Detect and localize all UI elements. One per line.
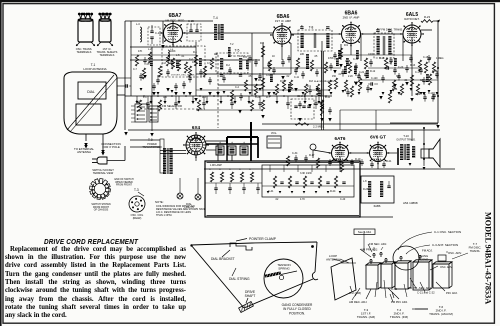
svg-text:T-10: T-10 [403, 134, 409, 138]
svg-text:C-120: C-120 [371, 77, 378, 80]
svg-text:S-1: S-1 [136, 100, 140, 103]
svg-text:C-7: C-7 [133, 68, 138, 71]
svg-text:(REAR): (REAR) [133, 217, 142, 220]
svg-text:R-13: R-13 [410, 64, 416, 67]
svg-text:C-12: C-12 [321, 80, 327, 83]
svg-text:R-11: R-11 [325, 96, 331, 99]
svg-text:AM REC. ADJ.: AM REC. ADJ. [349, 300, 368, 304]
svg-text:R-9: R-9 [307, 85, 312, 88]
svg-text:FOR 3' POLE: FOR 3' POLE [102, 145, 120, 149]
svg-text:1ST I.F. AMP: 1ST I.F. AMP [275, 19, 291, 23]
svg-text:T-8: T-8 [309, 26, 314, 30]
svg-text:C-1 OSC. SECTION: C-1 OSC. SECTION [434, 230, 461, 234]
svg-text:POINTER CLAMP: POINTER CLAMP [249, 237, 277, 241]
svg-text:C-17: C-17 [415, 71, 421, 74]
svg-text:TRANS. (AM): TRANS. (AM) [357, 315, 375, 319]
svg-text:AM OSC.-MOD.: AM OSC.-MOD. [165, 19, 185, 23]
svg-text:R-3: R-3 [202, 96, 207, 99]
svg-text:R-23: R-23 [424, 15, 431, 19]
svg-text:C-40: C-40 [340, 198, 346, 201]
svg-text:R-24: R-24 [330, 190, 336, 193]
svg-text:68K: 68K [420, 79, 425, 82]
svg-text:C-8: C-8 [162, 62, 167, 65]
svg-text:C-4: C-4 [235, 86, 240, 89]
svg-text:C-21: C-21 [359, 71, 365, 74]
svg-text:33K: 33K [396, 75, 401, 78]
svg-text:LOOP ANTENNA: LOOP ANTENNA [83, 67, 106, 71]
svg-text:470K: 470K [328, 57, 334, 60]
svg-text:100K: 100K [368, 53, 374, 56]
svg-text:ANTENNA: ANTENNA [77, 150, 91, 154]
svg-text:47K: 47K [138, 50, 143, 53]
svg-text:C-19: C-19 [415, 93, 421, 96]
svg-text:+: + [231, 141, 233, 145]
svg-text:AM-FM SELECTOR: AM-FM SELECTOR [157, 104, 182, 108]
svg-text:FM PRI. ADJ.: FM PRI. ADJ. [391, 300, 408, 304]
svg-text:AM PRI.-SEC. ADJ.: AM PRI.-SEC. ADJ. [408, 286, 432, 290]
svg-text:R-15: R-15 [379, 57, 385, 60]
svg-text:R-8: R-8 [309, 80, 314, 83]
svg-text:L-3: L-3 [136, 22, 140, 26]
svg-text:A54 13898: A54 13898 [403, 201, 418, 205]
svg-text:C-34: C-34 [292, 152, 298, 155]
svg-text:T-3: T-3 [134, 188, 139, 192]
svg-text:R-16: R-16 [392, 88, 398, 91]
svg-text:DIAL STRING: DIAL STRING [229, 277, 250, 281]
svg-text:MODEL 94BA1-43-7853A: MODEL 94BA1-43-7853A [484, 212, 493, 304]
svg-text:4.7K: 4.7K [300, 198, 305, 201]
svg-text:2.2K: 2.2K [348, 75, 353, 78]
svg-text:R-12: R-12 [370, 70, 376, 73]
svg-text:R-21: R-21 [386, 160, 392, 163]
svg-text:FM ADJ.: FM ADJ. [422, 249, 433, 253]
svg-text:22K: 22K [300, 53, 305, 56]
svg-text:See 1-16A: See 1-16A [358, 230, 371, 234]
svg-text:3.3K 1/2W: 3.3K 1/2W [300, 172, 312, 175]
svg-text:T-5: T-5 [235, 49, 240, 53]
svg-text:DIAL: DIAL [87, 90, 95, 94]
svg-text:R-14: R-14 [432, 70, 438, 73]
svg-text:TERMINALS: TERMINALS [100, 53, 115, 57]
svg-text:C-3 ANT. SECTION: C-3 ANT. SECTION [432, 243, 458, 247]
svg-text:2.2 MEG.: 2.2 MEG. [313, 125, 325, 129]
svg-text:R-6: R-6 [280, 80, 285, 83]
svg-text:100: 100 [192, 61, 197, 64]
svg-text:R-1: R-1 [193, 51, 198, 54]
svg-text:OF CHASSIS: OF CHASSIS [94, 209, 109, 212]
svg-text:C-5: C-5 [207, 62, 212, 65]
svg-text:R-16: R-16 [355, 74, 361, 77]
svg-text:+: + [243, 141, 245, 145]
svg-text:TERMINAL VIEW: TERMINAL VIEW [93, 171, 114, 175]
svg-text:C-23: C-23 [255, 96, 261, 99]
svg-text:6AB6: 6AB6 [374, 204, 381, 208]
svg-text:SHAFT: SHAFT [245, 294, 256, 298]
svg-text:POSITION.: POSITION. [289, 311, 305, 315]
svg-text:150: 150 [332, 75, 337, 78]
svg-text:1.98 LAMP: 1.98 LAMP [210, 164, 222, 167]
svg-text:DIAL BRACKET: DIAL BRACKET [211, 257, 235, 261]
svg-text:C-20: C-20 [398, 66, 404, 69]
svg-text:C-42: C-42 [391, 287, 398, 291]
svg-text:1 MEG: 1 MEG [436, 57, 444, 60]
svg-text:1K: 1K [272, 55, 275, 58]
svg-text:RATIO DET.: RATIO DET. [404, 17, 419, 21]
svg-text:COND.: COND. [420, 257, 429, 261]
svg-text:56K: 56K [354, 81, 359, 84]
svg-text:SPRING: SPRING [278, 266, 290, 270]
svg-text:.005: .005 [388, 53, 393, 56]
svg-text:TRANSFORMER: TRANSFORMER [142, 146, 162, 149]
svg-text:6AT6: 6AT6 [335, 136, 346, 141]
svg-text:AM PRI. ADJ.: AM PRI. ADJ. [361, 248, 378, 252]
svg-text:THAN 1 OHM.: THAN 1 OHM. [156, 214, 172, 217]
svg-text:VOL.: VOL. [271, 131, 278, 135]
svg-text:2ND I.F. AMP: 2ND I.F. AMP [343, 16, 360, 20]
svg-text:C-3: C-3 [243, 56, 248, 59]
svg-text:R-9: R-9 [344, 44, 349, 47]
svg-text:FM SEC. ADJ.: FM SEC. ADJ. [369, 242, 387, 246]
svg-text:OSC. ADV.: OSC. ADV. [440, 265, 453, 269]
svg-text:NOTE:: NOTE: [155, 200, 164, 204]
svg-text:TERMINALS: TERMINALS [77, 50, 92, 54]
svg-text:R-5: R-5 [157, 75, 162, 78]
svg-text:OUTPUT TRANS.: OUTPUT TRANS. [396, 139, 416, 142]
svg-text:6V6 GT: 6V6 GT [370, 135, 386, 140]
svg-text:R-7: R-7 [266, 96, 271, 99]
svg-text:R-2: R-2 [226, 64, 231, 67]
svg-text:C-21 and C-22: C-21 and C-22 [417, 291, 435, 295]
svg-text:R-26: R-26 [363, 188, 369, 191]
svg-text:C-9: C-9 [266, 74, 271, 77]
svg-text:ANTENNA: ANTENNA [326, 257, 340, 261]
svg-text:TRANS.: TRANS. [470, 249, 481, 253]
svg-text:OSC. ADV.: OSC. ADV. [448, 251, 462, 255]
svg-text:PRI. ADJ.: PRI. ADJ. [446, 291, 458, 295]
svg-text:R-4: R-4 [260, 42, 265, 45]
svg-text:FROM FRONT: FROM FRONT [116, 184, 132, 187]
svg-text:TRANS. (FM): TRANS. (FM) [390, 315, 408, 319]
svg-text:T-4: T-4 [213, 16, 218, 20]
svg-text:C-2 (AM): C-2 (AM) [349, 291, 361, 295]
svg-text:C-1B: C-1B [188, 19, 194, 23]
svg-text:R-17: R-17 [309, 154, 315, 157]
svg-text:C-2-B: C-2-B [298, 94, 305, 98]
svg-text:C-16: C-16 [353, 58, 359, 61]
svg-text:TRANS. (AM-FM): TRANS. (AM-FM) [429, 312, 453, 316]
svg-text:C-6: C-6 [163, 96, 168, 99]
svg-text:1ST DET.-OSC. TRANS.: 1ST DET.-OSC. TRANS. [171, 74, 195, 77]
svg-text:C-11: C-11 [294, 76, 300, 79]
svg-text:6X4: 6X4 [192, 125, 201, 130]
svg-text:+: + [219, 141, 221, 145]
